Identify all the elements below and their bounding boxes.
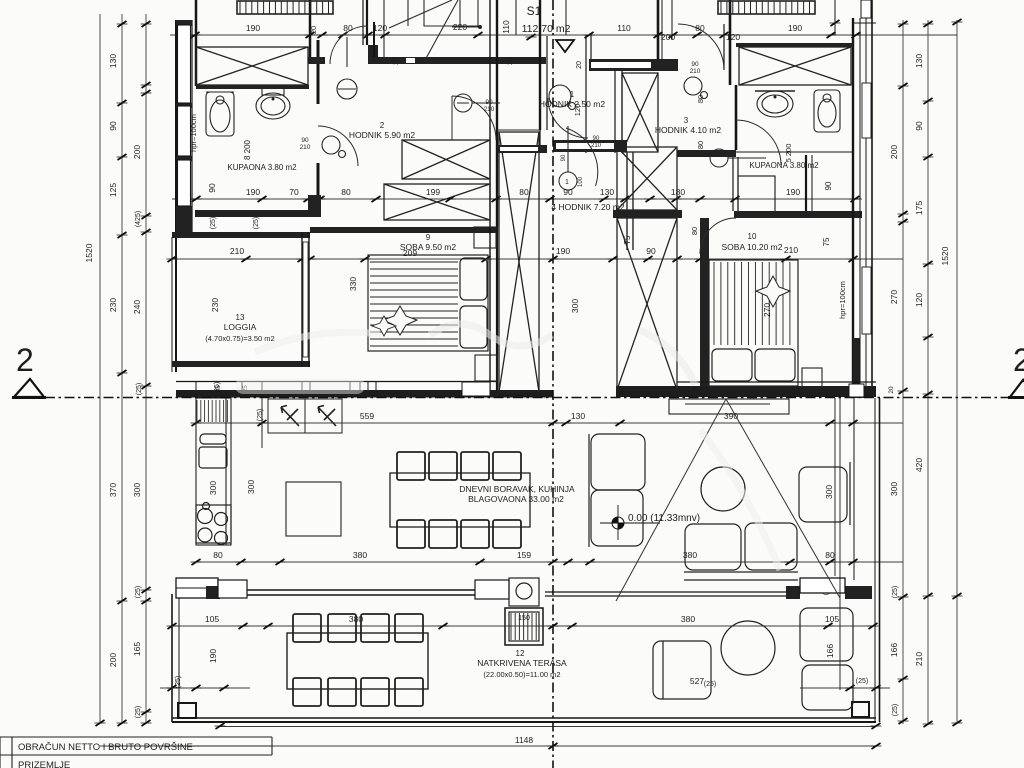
svg-text:DNEVNI BORAVAK, KUHINJA: DNEVNI BORAVAK, KUHINJA [459,484,575,494]
svg-text:LOGGIA: LOGGIA [224,322,257,332]
svg-text:90: 90 [593,136,600,142]
section line horizontal [45,397,1014,399]
svg-text:2: 2 [16,342,34,378]
svg-text:380: 380 [681,614,695,624]
svg-text:130: 130 [914,54,924,68]
svg-text:200: 200 [132,145,142,159]
svg-text:180: 180 [671,187,685,197]
svg-text:370: 370 [108,483,118,497]
svg-text:130: 130 [108,54,118,68]
svg-text:300: 300 [208,481,218,495]
south wall / sliding doors [176,578,218,598]
washbasin bathroom 5 [755,91,795,117]
svg-text:5 200: 5 200 [784,144,793,163]
svg-text:SOBA 9.50 m2: SOBA 9.50 m2 [400,242,456,252]
svg-text:559: 559 [360,411,374,421]
svg-text:120: 120 [573,104,582,117]
svg-text:1: 1 [565,179,569,186]
svg-text:OBRAČUN NETTO I BRUTO POVRŠINE: OBRAČUN NETTO I BRUTO POVRŠINE [18,742,193,753]
svg-text:NATKRIVENA TERASA: NATKRIVENA TERASA [477,658,567,668]
svg-text:90: 90 [824,181,833,190]
svg-text:80: 80 [213,550,223,560]
lounge chair terrace [653,641,711,699]
svg-text:1: 1 [570,90,575,99]
svg-text:(4.70x0.75)=3.50 m2: (4.70x0.75)=3.50 m2 [205,334,274,343]
toilet bathroom 8 [256,88,290,119]
svg-text:(25): (25) [214,382,221,394]
svg-text:(25): (25) [892,704,899,716]
toilet bathroom 5 [814,90,840,132]
svg-text:190: 190 [246,187,260,197]
svg-text:90: 90 [301,137,309,144]
svg-text:125: 125 [108,183,118,197]
svg-text:(25): (25) [704,681,716,688]
svg-text:80: 80 [696,141,705,149]
sink hallway 1/toilet [549,85,576,110]
door label circles [454,94,766,190]
svg-text:120: 120 [726,32,740,42]
building walls [172,0,880,722]
bed room 9 [368,255,488,351]
svg-text:130: 130 [600,187,614,197]
wall band stair south [497,145,547,153]
svg-text:hpr=100cm: hpr=100cm [189,114,198,152]
round side table [701,467,745,511]
svg-text:80: 80 [341,187,351,197]
svg-text:(25): (25) [856,678,868,685]
svg-text:(25): (25) [135,586,142,598]
kitchen hatch [197,400,227,422]
wardrobe hallway 2 lower [384,184,490,220]
svg-text:210: 210 [914,652,924,666]
svg-text:200: 200 [661,32,675,42]
view cone triangle [616,399,840,601]
svg-text:2: 2 [1013,342,1024,378]
svg-text:HODNIK 4.10 m2: HODNIK 4.10 m2 [655,125,721,135]
svg-text:166: 166 [889,643,899,657]
vent boxes with arrows [262,398,342,448]
terrace table [287,633,428,689]
terrace walls [171,594,173,722]
svg-text:190: 190 [786,187,800,197]
svg-text:210: 210 [784,245,798,255]
bathroom 8 walls [195,0,198,86]
svg-text:80: 80 [519,187,529,197]
wardrobe bathroom 8 [196,47,308,85]
door arcs [318,24,781,254]
svg-text:210: 210 [300,144,311,151]
washbasin hallway 2 [322,79,357,158]
wardrobe bathroom 5 [739,47,851,85]
svg-text:110: 110 [617,23,631,33]
svg-text:90: 90 [561,154,567,161]
svg-text:0.00 (11.33mnv): 0.00 (11.33mnv) [628,513,700,524]
svg-text:150: 150 [518,615,530,622]
svg-text:210: 210 [484,106,495,113]
svg-text:(25): (25) [136,383,143,395]
kitchen stove [196,503,231,545]
svg-text:210: 210 [230,246,244,256]
dining chairs [397,452,521,548]
svg-text:80: 80 [825,550,835,560]
svg-text:(25): (25) [135,706,142,718]
hallway 3 / bathroom 5 walls [657,0,660,59]
svg-text:120: 120 [373,23,387,33]
svg-text:300: 300 [570,299,580,313]
svg-text:230: 230 [210,298,220,312]
svg-text:190: 190 [208,649,218,663]
svg-text:10: 10 [748,232,757,241]
terrace side chairs [800,608,853,710]
section marker left [12,342,46,398]
svg-text:90: 90 [691,61,699,68]
TV cabinet [669,399,789,414]
east wall [834,0,836,35]
svg-text:165: 165 [132,642,142,656]
top stair hatch left [237,1,333,14]
svg-text:75: 75 [822,237,831,246]
svg-text:(25): (25) [253,217,260,229]
svg-text:190: 190 [556,246,570,256]
star decor bed 10 [756,276,790,307]
svg-text:120: 120 [914,293,924,307]
svg-text:8 200: 8 200 [243,139,252,160]
svg-text:4 HODNIK 7.20 m2: 4 HODNIK 7.20 m2 [551,202,624,212]
bed room 10 [709,260,798,386]
svg-text:300: 300 [246,480,256,494]
svg-text:190: 190 [788,23,802,33]
svg-text:210: 210 [690,68,701,75]
svg-text:166: 166 [825,644,835,658]
sofa right part [799,462,850,525]
room 9 walls [310,227,497,233]
svg-text:112.70 m2: 112.70 m2 [522,23,571,35]
svg-text:420: 420 [914,458,924,472]
svg-text:1520: 1520 [84,243,94,262]
svg-text:330: 330 [348,277,358,291]
svg-text:(25): (25) [892,586,899,598]
shaft center right upper [617,147,677,210]
top stair hatch right [718,1,815,14]
wall band between shafts [613,210,682,218]
svg-text:20: 20 [888,386,895,394]
stair landing top center [389,0,482,62]
svg-text:(425): (425) [135,211,142,227]
svg-text:240: 240 [132,300,142,314]
svg-text:hpr=100cm: hpr=100cm [838,281,847,319]
nightstands room 9 [474,227,496,248]
wardrobe hallway 2 upper [402,140,490,179]
svg-text:HODNIK 5.90 m2: HODNIK 5.90 m2 [349,130,415,140]
watermark [235,378,365,394]
elevation marker [600,505,660,540]
svg-text:9: 9 [426,233,431,242]
svg-text:210: 210 [591,143,602,149]
hallway 1 walls [589,59,678,71]
svg-text:70: 70 [289,187,299,197]
svg-text:300: 300 [824,485,834,499]
terrace chairs [293,614,423,706]
sink hallway 3 [684,77,708,99]
svg-text:105: 105 [825,614,839,624]
svg-text:80: 80 [696,95,705,103]
room labels [189,57,847,686]
title block table [0,737,272,768]
svg-text:130: 130 [571,411,585,421]
main central wall band [176,381,497,383]
hallway 2 walls [308,57,325,64]
svg-text:230: 230 [108,298,118,312]
svg-text:300: 300 [889,482,899,496]
svg-text:200: 200 [108,653,118,667]
svg-text:20: 20 [393,57,400,65]
loggia walls [172,232,310,238]
svg-text:90: 90 [646,246,656,256]
section marker right [1008,342,1024,398]
svg-text:190: 190 [246,23,260,33]
svg-text:100: 100 [578,176,584,187]
svg-text:KUPAONA 3.80 m2: KUPAONA 3.80 m2 [227,163,297,172]
stair landing line [497,126,568,172]
coffee table [286,482,341,536]
svg-text:1148: 1148 [515,735,534,745]
svg-text:BLAGOVAONA 33.00 m2: BLAGOVAONA 33.00 m2 [468,494,564,504]
svg-text:175: 175 [914,201,924,215]
entry arrow top [556,40,574,52]
svg-text:(25): (25) [210,217,217,229]
svg-text:20: 20 [576,61,583,69]
dimension grid lines [100,14,957,746]
svg-text:(22.00x0.50)=11.00 m2: (22.00x0.50)=11.00 m2 [483,670,560,679]
svg-text:380: 380 [353,550,367,560]
svg-text:80: 80 [690,227,699,235]
svg-text:90: 90 [914,121,924,131]
svg-text:12: 12 [516,649,525,658]
section line vertical [552,0,554,768]
svg-text:270: 270 [889,290,899,304]
sofa L left part [589,434,645,547]
svg-text:1520: 1520 [940,246,950,265]
svg-text:2: 2 [380,121,385,130]
svg-text:199: 199 [426,187,440,197]
bbq unit [505,578,543,645]
kitchen sink [199,434,227,468]
round table terrace [721,621,775,675]
stair shaft left [499,132,539,392]
nightstand room 10 [802,368,822,388]
svg-text:13: 13 [236,313,245,322]
wardrobe hallway 1 [622,73,658,152]
dining table [390,473,530,527]
shaft center right lower [617,218,677,390]
svg-text:90: 90 [108,121,118,131]
kitchen counter [196,398,231,545]
svg-text:3: 3 [684,116,689,125]
svg-text:200: 200 [889,145,899,159]
svg-text:90: 90 [207,183,217,193]
sofa bottom seats [684,523,798,580]
svg-text:527: 527 [690,676,704,686]
svg-text:159: 159 [517,550,531,560]
svg-text:(25): (25) [257,409,264,421]
stair core S1 [489,0,491,226]
svg-text:270: 270 [762,303,772,317]
star decor bed 9 [383,306,417,335]
svg-text:90: 90 [563,187,573,197]
bathtub bathroom 8 [206,92,234,136]
svg-text:105: 105 [205,614,219,624]
svg-text:SOBA 10.20 m2: SOBA 10.20 m2 [722,242,783,252]
svg-text:20: 20 [507,57,514,65]
svg-text:300: 300 [132,483,142,497]
svg-text:PRIZEMLJE: PRIZEMLJE [18,760,70,768]
svg-text:110: 110 [501,20,511,34]
